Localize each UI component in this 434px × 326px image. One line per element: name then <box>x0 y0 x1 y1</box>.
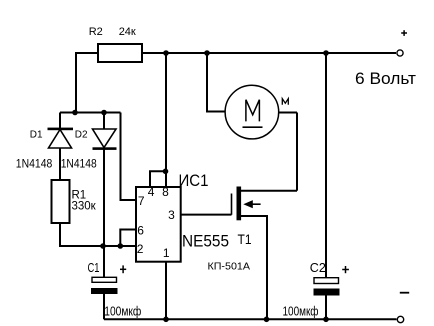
svg-text:1: 1 <box>163 246 170 260</box>
svg-text:1N4148: 1N4148 <box>16 159 53 171</box>
svg-text:8: 8 <box>162 185 169 199</box>
svg-text:100мкф: 100мкф <box>104 305 141 319</box>
svg-text:4: 4 <box>148 185 155 199</box>
svg-text:6: 6 <box>137 223 144 237</box>
svg-text:330к: 330к <box>72 201 97 213</box>
svg-text:D1: D1 <box>30 130 43 141</box>
svg-text:2: 2 <box>137 242 144 256</box>
svg-text:Т1: Т1 <box>238 231 252 247</box>
svg-text:D2: D2 <box>75 130 88 141</box>
svg-text:NE555: NE555 <box>182 232 229 251</box>
svg-text:100мкф: 100мкф <box>283 305 319 319</box>
svg-text:6 Вольт: 6 Вольт <box>355 69 416 88</box>
svg-text:24к: 24к <box>119 26 136 38</box>
svg-text:С1: С1 <box>88 261 100 275</box>
svg-text:КП-501А: КП-501А <box>208 260 251 272</box>
svg-text:1N4148: 1N4148 <box>61 159 97 171</box>
svg-text:7: 7 <box>138 194 145 208</box>
svg-text:3: 3 <box>168 208 175 222</box>
svg-text:ИС1: ИС1 <box>179 172 209 190</box>
svg-text:R2: R2 <box>89 26 103 38</box>
svg-text:С2: С2 <box>310 261 326 275</box>
